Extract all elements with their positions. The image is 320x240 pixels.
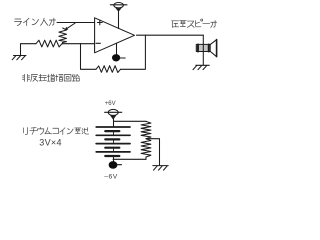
label line-input (katakana): [14, 18, 55, 25]
wire output down through speaker: [202, 35, 204, 51]
battery B2 short plate: [105, 138, 119, 140]
wire battery bottom stub: [113, 156, 115, 161]
wire cell 2-3: [113, 139, 115, 143]
label piezo-speaker (kanji+katakana): [172, 19, 217, 27]
ground at input: [12, 56, 26, 60]
battery B4 long plate: [96, 151, 130, 153]
piezo speaker SP1 cone: [210, 40, 216, 56]
battery +6V terminal: [108, 109, 118, 115]
wire feedback to output: [121, 35, 146, 69]
potentiometer VR1 wiper arrow: [67, 23, 75, 29]
label lithium-coin-battery (katakana+kanji): [24, 127, 89, 134]
battery B3 long plate: [96, 143, 130, 145]
potentiometer VR1 body: [59, 28, 67, 43]
battery B3 short plate: [105, 147, 119, 149]
wire R1 to op-amp - input: [62, 43, 94, 45]
op-amp + symbol: [97, 20, 102, 25]
wire op-amp V- pin: [116, 43, 118, 54]
battery B2 long plate: [96, 134, 130, 136]
-6V battery terminal (filled dot): [109, 161, 118, 169]
ground at speaker: [193, 65, 209, 69]
wire divider midpoint tap: [146, 139, 160, 166]
-6V supply terminal at op-amp (filled dot): [112, 54, 120, 61]
piezo speaker SP1 body: [196, 44, 210, 51]
wire -6V rail to divider bottom: [113, 158, 146, 160]
svg-text:+6V: +6V: [105, 101, 116, 107]
ground at divider: [153, 166, 168, 171]
wire output: [137, 34, 204, 36]
+6V supply terminal at op-amp: [114, 2, 124, 7]
potentiometer wiper arrowhead: [65, 27, 69, 30]
wire ground corner to resistor R1: [21, 44, 37, 55]
label non-inverting-amplifier (kanji): [22, 74, 79, 81]
wire pot bottom stub: [62, 43, 64, 44]
resistor R1 input: [36, 40, 62, 47]
battery B1 long plate 1: [96, 126, 130, 128]
resistor R2 feedback: [96, 66, 121, 73]
op-amp - symbol: [96, 42, 100, 44]
wire R4 bottom stub: [145, 157, 147, 159]
wire op-amp V+ pin: [118, 11, 120, 28]
wire battery top stub: [113, 119, 115, 127]
svg-text:–6V: –6V: [104, 174, 118, 180]
resistor R4 divider bottom: [141, 139, 151, 157]
wire input line to op-amp + input: [57, 22, 94, 24]
wire cell 3-4: [113, 148, 115, 152]
resistor R3 divider top: [141, 121, 151, 138]
op-amp U1 triangle: [95, 18, 135, 53]
wire feedback tap down: [81, 44, 97, 70]
battery B1 short plate 1: [105, 130, 119, 132]
svg-text:3V×4: 3V×4: [39, 138, 61, 148]
wire cell 1-2: [113, 131, 115, 135]
wire speaker to ground: [202, 52, 204, 66]
battery B4 short plate: [105, 155, 119, 157]
wire +6V rail to divider: [114, 120, 147, 122]
